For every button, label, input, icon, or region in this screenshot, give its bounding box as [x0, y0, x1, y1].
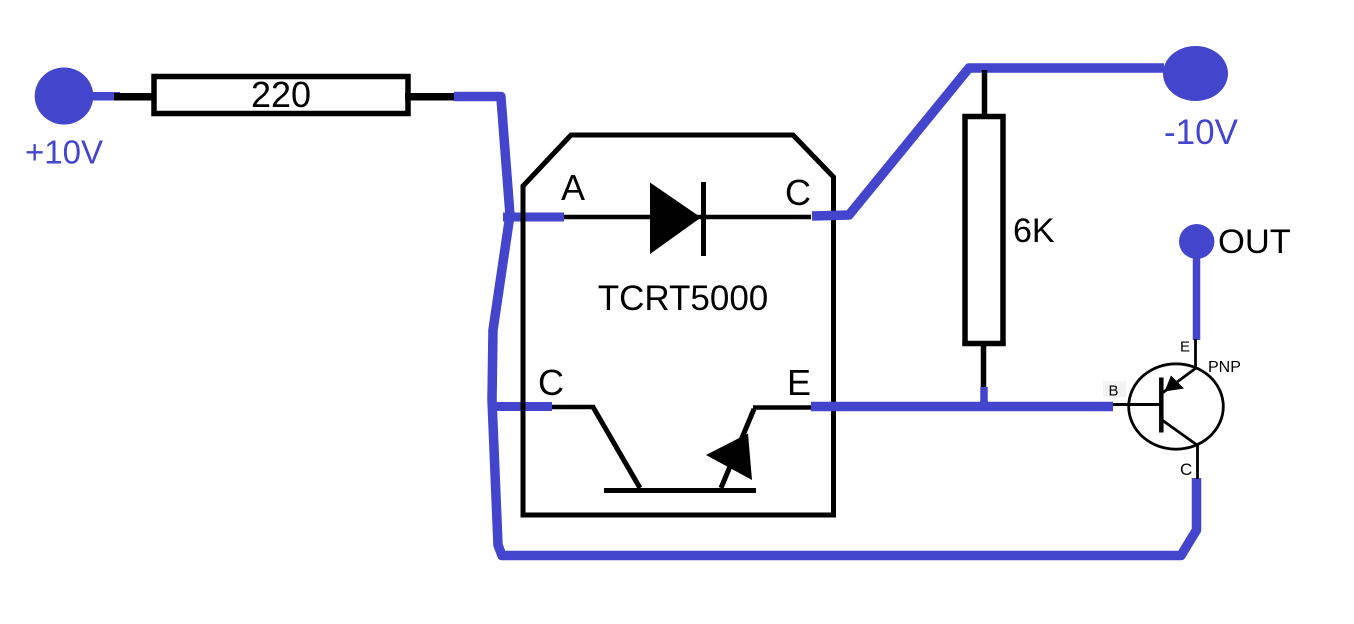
wire blue stub to photo collector C [492, 402, 552, 411]
svg-text:PNP: PNP [1208, 359, 1241, 376]
svg-text:-10V: -10V [1164, 113, 1239, 152]
wire black to resistor [114, 93, 152, 101]
svg-text:+10V: +10V [25, 134, 103, 171]
wire blue junction 6K to base wire [980, 387, 988, 406]
wire blue cathode stub right [812, 68, 1164, 216]
svg-text:E: E [787, 362, 811, 403]
resistor R2 6K top lead [982, 70, 988, 116]
wire blue photo emitter to transistor base [811, 402, 1113, 412]
svg-text:C: C [785, 172, 811, 213]
resistor R2 6K body [965, 117, 1003, 344]
svg-text:TCRT5000: TCRT5000 [598, 279, 769, 318]
svg-text:C: C [1180, 460, 1192, 479]
svg-text:B: B [1109, 383, 1119, 400]
phototransistor Q2 symbol [552, 407, 811, 491]
terminal +10V [35, 68, 94, 125]
svg-text:OUT: OUT [1218, 223, 1291, 261]
diode D1 (IR LED) [564, 182, 811, 256]
svg-text:A: A [561, 167, 585, 208]
wire blue stub to anode A [503, 213, 564, 222]
wire blue stub from +10V [90, 92, 120, 101]
wire blue: top horizontal, left vertical run, bottom horizontal to transistor collector [454, 97, 1197, 556]
svg-text:220: 220 [251, 74, 311, 115]
transistor Q1 PNP [1113, 339, 1223, 479]
svg-text:C: C [538, 362, 564, 403]
terminal -10V [1163, 46, 1228, 101]
svg-text:6K: 6K [1013, 212, 1055, 250]
terminal OUT dot [1179, 224, 1214, 259]
sensor U1 TCRT5000 outline [523, 135, 834, 515]
svg-text:E: E [1180, 339, 1190, 356]
resistor R2 6K bottom lead [981, 344, 987, 392]
resistor R1 220 body [154, 77, 408, 114]
wire blue OUT to emitter [1193, 258, 1201, 340]
faint selection box behind B [1103, 381, 1126, 397]
wire black from resistor [405, 93, 455, 101]
